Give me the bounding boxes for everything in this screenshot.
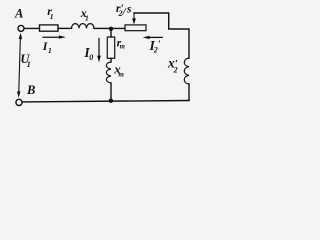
- svg-text:1: 1: [85, 14, 89, 23]
- svg-text:′: ′: [158, 40, 161, 50]
- wire rm to xm: [110, 58, 112, 62]
- svg-text:m: m: [120, 44, 125, 51]
- svg-text:1: 1: [48, 46, 52, 55]
- svg-text:s: s: [126, 4, 132, 16]
- resistor rm: [107, 37, 114, 58]
- wire magnetizing branch top: [110, 29, 112, 37]
- node top junction: [109, 27, 113, 31]
- current arrow I2': [149, 36, 162, 38]
- bottom wire: [22, 101, 189, 102]
- wire wiper over to right branch: [134, 13, 189, 58]
- wire x2' down to bottom: [188, 84, 190, 101]
- current arrow I1: [43, 36, 60, 38]
- svg-text:2: 2: [153, 45, 158, 54]
- resistor r2'/s: [125, 25, 146, 31]
- inductor xm: [106, 62, 111, 83]
- wiper arrow of r2'/s: [133, 13, 135, 19]
- terminal B: [16, 99, 22, 105]
- svg-text:A: A: [14, 6, 23, 20]
- wire r1 to x1: [58, 27, 72, 29]
- svg-text:0: 0: [89, 53, 93, 62]
- svg-text:m: m: [118, 70, 124, 78]
- svg-text:/: /: [122, 6, 127, 18]
- inductor x1: [72, 24, 95, 29]
- node bottom junction: [109, 99, 113, 103]
- wire x1 to r2s: [94, 27, 125, 29]
- voltage arrow U1: [19, 36, 21, 92]
- svg-text:1: 1: [50, 12, 54, 21]
- inductor x2': [184, 58, 189, 84]
- terminal A: [18, 25, 24, 31]
- svg-text:2: 2: [173, 66, 178, 75]
- wire xm to bottom: [110, 83, 112, 101]
- svg-text:1: 1: [27, 60, 31, 69]
- svg-text:B: B: [26, 83, 35, 97]
- wire A to r1: [24, 27, 39, 29]
- current arrow I0: [98, 39, 100, 57]
- resistor r1: [40, 25, 59, 31]
